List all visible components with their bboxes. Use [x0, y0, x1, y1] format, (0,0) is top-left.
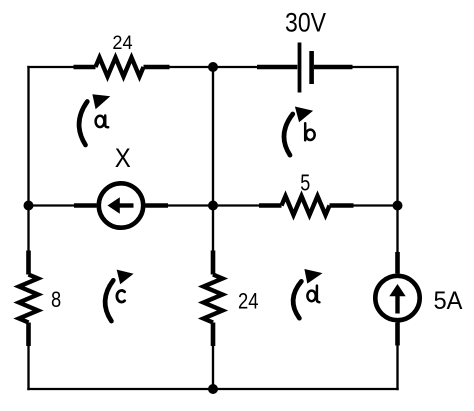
wire: top rail, R1 to node N1 [170, 66, 214, 68]
mesh current arrow d (bottom-right mesh) [293, 269, 322, 318]
label: d (mesh d) [307, 286, 319, 303]
wire: right rail, node N4 down to source I1 [396, 206, 398, 253]
wire: middle rail, R4 to bottom node N5 [212, 346, 214, 389]
resistor R2 5ohm (middle right, horizontal) [259, 196, 354, 215]
wire: middle row, R2 to node N4 [354, 204, 398, 206]
wire: bottom rail, right segment [213, 388, 398, 390]
wire: middle rail, node N3 down to R4 [212, 206, 214, 251]
node N5: junction dot bottom middle [208, 384, 218, 394]
resistor R3 8ohm (bottom left, vertical) [19, 251, 38, 347]
wire: top rail, battery to top-right corner [353, 66, 398, 68]
mesh current arrow b (top-right mesh) [284, 107, 313, 156]
wire: bottom rail, left segment [29, 388, 214, 390]
wire: top rail, left segment to R1 [29, 66, 74, 68]
wire: right rail, source I1 to bottom-right corner [396, 346, 398, 390]
current source X (middle left, arrow pointing left) [74, 183, 168, 227]
wire: left rail, R3 to bottom-left corner [27, 346, 29, 389]
svg-text:24: 24 [238, 288, 259, 313]
resistor R1 24ohm (top left, horizontal) [74, 58, 170, 77]
wire: middle row, source X to node N3 [168, 204, 213, 206]
node N4: junction dot middle right [393, 201, 403, 211]
svg-text:30V: 30V [285, 7, 326, 37]
svg-text:5: 5 [300, 169, 310, 195]
wire: right rail upper segment [396, 67, 398, 206]
mesh current arrow a (top-left mesh) [79, 94, 110, 145]
svg-text:5A: 5A [434, 287, 463, 315]
svg-text:24: 24 [112, 33, 133, 54]
mesh current arrow c (bottom-left mesh) [105, 270, 134, 322]
svg-text:X: X [115, 143, 131, 173]
node N3: junction dot center [208, 201, 218, 211]
wire: middle row, node N3 to R2 [213, 204, 259, 206]
wire: middle rail upper segment (node N1 to node N3) [212, 67, 214, 206]
svg-text:8: 8 [51, 287, 61, 312]
node N1: junction dot top middle [208, 62, 218, 72]
wire: top rail, node N1 to battery V1 [213, 66, 257, 68]
wire: middle row, node N2 to source X [29, 204, 75, 206]
battery V1 30V (top right, horizontal) [257, 43, 353, 93]
wire: left rail, node N2 down to R3 [27, 206, 29, 251]
label: c (mesh c) [117, 290, 125, 302]
current source I1 5A (bottom right, arrow pointing up) [375, 252, 419, 346]
label: b (mesh b) [305, 123, 314, 140]
wire: left rail (top-left corner down to bottom-left corner runs) [27, 67, 29, 206]
resistor R4 24ohm (bottom middle, vertical) [204, 251, 223, 347]
node N2: junction dot middle left [24, 201, 34, 211]
label: a (mesh a) [96, 116, 109, 128]
